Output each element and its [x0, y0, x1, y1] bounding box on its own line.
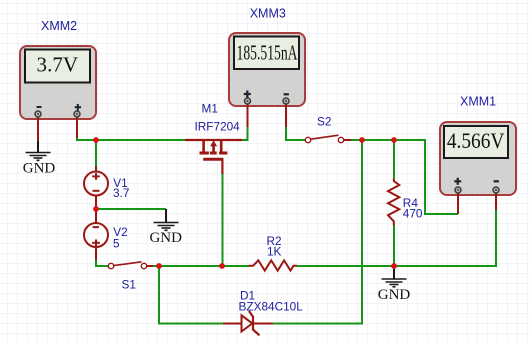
wire D1 to node F riser: [273, 140, 362, 324]
label IRF7204: [195, 119, 241, 133]
label M1: [202, 102, 218, 116]
label R4 value 470: [403, 196, 423, 221]
wire node E to XMM1 minus: [394, 210, 496, 266]
ground GND2 middle: [149, 209, 182, 246]
resistor R4: [388, 179, 399, 226]
wire MOSFET drain rail to XMM3 plus: [241, 127, 248, 140]
svg-text:XMM2: XMM2: [41, 19, 77, 33]
svg-text:XMM3: XMM3: [250, 6, 286, 20]
svg-text:GND: GND: [378, 287, 411, 303]
zener diode D1: [223, 311, 273, 335]
switch S1: [108, 262, 153, 269]
wire node G down to R4: [393, 140, 395, 179]
wire node B to middle ground: [96, 208, 166, 210]
svg-text:S1: S1: [122, 277, 136, 291]
wire node D to R2: [222, 265, 250, 267]
battery V2: [84, 209, 108, 260]
junction node G: [391, 137, 397, 143]
resistor R2: [249, 260, 297, 270]
svg-text:470: 470: [403, 206, 423, 220]
junction node E: [391, 263, 397, 269]
label BZX84C10L: [239, 300, 304, 314]
junction node F: [359, 137, 365, 143]
label V2 value 5: [113, 225, 128, 250]
svg-text:4.566V: 4.566V: [447, 128, 505, 153]
label XMM1: [460, 95, 496, 109]
svg-text:5: 5: [113, 236, 120, 250]
svg-text:GND: GND: [23, 160, 56, 176]
wire R2 to node E: [297, 265, 395, 267]
junction node B: [93, 206, 99, 212]
wire node F to node G: [362, 139, 394, 141]
label XMM3: [250, 6, 286, 20]
svg-text:BZX84C10L: BZX84C10L: [239, 300, 304, 314]
battery V1: [84, 166, 108, 209]
wire node A down to V1: [95, 140, 97, 166]
label D1: [240, 288, 255, 302]
ground GND1 below XMM2: [23, 141, 56, 176]
wire node C down to D1: [159, 266, 223, 324]
wire node G to XMM1 plus: [394, 140, 458, 214]
wire S1 to node C: [146, 265, 159, 267]
label R2 value 1K: [267, 234, 282, 259]
multimeter XMM2: [20, 46, 96, 141]
label XMM2: [41, 19, 77, 33]
ground GND3 right: [378, 266, 411, 303]
svg-text:GND: GND: [149, 230, 182, 246]
wire node C to node D: [159, 265, 222, 267]
wire S2 to node F: [350, 139, 362, 141]
multimeter XMM3: [229, 33, 305, 127]
wire R4 to node E: [393, 225, 395, 266]
svg-text:3.7: 3.7: [113, 186, 129, 200]
label S1: [122, 277, 136, 291]
svg-text:IRF7204: IRF7204: [195, 119, 241, 133]
multimeter XMM1: [440, 122, 516, 214]
label S2: [317, 114, 331, 128]
MOSFET M1: [185, 140, 242, 174]
junction node C: [156, 263, 162, 269]
switch S2: [305, 135, 351, 143]
wire V2 to switch S1: [96, 260, 109, 266]
svg-text:S2: S2: [317, 114, 331, 128]
wire MOSFET gate to node D: [222, 174, 224, 266]
svg-text:M1: M1: [202, 102, 218, 116]
svg-text:3.7V: 3.7V: [37, 53, 79, 77]
junction node D: [219, 263, 225, 269]
wire net from XMM2 plus to node A: [77, 137, 96, 140]
wire node A to MOSFET source rail: [96, 139, 186, 141]
junction node A: [93, 137, 99, 143]
svg-text:1K: 1K: [267, 245, 282, 259]
label V1 value 3.7: [113, 176, 129, 200]
wire XMM3 minus to S2: [286, 127, 306, 140]
svg-text:185.515nA: 185.515nA: [237, 41, 298, 65]
svg-text:XMM1: XMM1: [460, 95, 496, 109]
